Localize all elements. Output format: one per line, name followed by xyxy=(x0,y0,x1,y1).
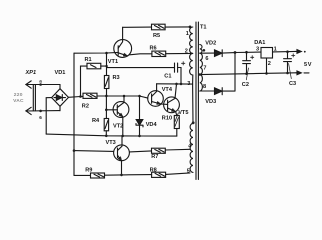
node VT5 collector on pin3 wire xyxy=(175,83,178,86)
svg-text:3: 3 xyxy=(256,47,259,53)
node pin7 xyxy=(199,73,202,76)
wire top rail VT1 collector to R5 xyxy=(123,26,152,28)
node VT2 collector junction xyxy=(123,95,126,98)
svg-text:R1: R1 xyxy=(85,57,92,63)
resistor R8 xyxy=(152,172,166,177)
wire bridge left vertex step to lower rail xyxy=(46,98,51,135)
svg-text:C3: C3 xyxy=(289,81,296,87)
wire plug pin a to bridge top xyxy=(26,84,60,86)
C3 label with leader xyxy=(289,64,297,88)
bottom rail (rail2) from left vertical xyxy=(74,173,190,176)
bridge rectifier VD1 xyxy=(52,89,69,107)
220 VAC mains label xyxy=(13,92,24,104)
svg-text:VAC: VAC xyxy=(13,98,24,104)
output positive rail xyxy=(235,51,296,52)
node DA1 pin2 bottom xyxy=(265,72,268,75)
output minus trailing dash xyxy=(304,72,309,74)
svg-text:6: 6 xyxy=(205,56,208,62)
C3 plus sign xyxy=(292,54,295,57)
node R4 bottom on rail1 xyxy=(105,135,108,138)
svg-text:VT2: VT2 xyxy=(113,123,123,129)
resistor R1 xyxy=(87,63,101,69)
svg-text:R3: R3 xyxy=(113,75,120,81)
node C3 bottom xyxy=(286,72,289,75)
node transformer pin 1 xyxy=(189,26,192,29)
svg-text:5V: 5V xyxy=(304,62,312,68)
wire VT1 base rail top-left corner xyxy=(73,53,75,175)
svg-text:7: 7 xyxy=(203,66,206,72)
C2 plus sign xyxy=(251,56,254,59)
node VD4 bottom on rail1 xyxy=(138,135,141,138)
node VT3 base tap on vertical xyxy=(73,149,76,152)
wire VT3 base from left vertical xyxy=(74,150,114,153)
transistor VT3 xyxy=(114,136,152,175)
svg-text:R4: R4 xyxy=(92,118,100,124)
resistor R9 xyxy=(91,173,105,178)
transistor VT2 xyxy=(113,96,129,136)
svg-text:VD3: VD3 xyxy=(205,99,216,105)
node C2 bottom xyxy=(245,73,248,76)
transformer core xyxy=(196,22,198,180)
transistor VT5 xyxy=(164,84,180,116)
wire R1 left to vertical xyxy=(81,66,88,96)
svg-text:220: 220 xyxy=(14,92,23,98)
svg-text:R5: R5 xyxy=(153,33,160,39)
C2 label with leader xyxy=(242,68,249,88)
node R1 branch on positive rail xyxy=(79,95,82,98)
node R3/R4 junction xyxy=(105,95,108,98)
capacitor C2 xyxy=(243,52,251,74)
svg-text:VD1: VD1 xyxy=(55,70,66,76)
capacitor C1 xyxy=(175,63,182,84)
transformer T1 primary winding 1-2-3 xyxy=(190,27,193,123)
svg-text:R2: R2 xyxy=(82,103,89,109)
svg-text:R7: R7 xyxy=(151,154,158,160)
resistor R2 xyxy=(83,93,97,98)
capacitor C1 wire left xyxy=(107,67,175,69)
svg-text:VD2: VD2 xyxy=(205,41,216,47)
node VT1 base / R3 top xyxy=(105,52,108,55)
resistor R7 xyxy=(152,148,166,153)
svg-text:VT1: VT1 xyxy=(108,59,118,65)
svg-text:2: 2 xyxy=(268,61,271,67)
svg-text:R10: R10 xyxy=(162,115,172,121)
svg-text:VT3: VT3 xyxy=(106,140,116,146)
C1 plus sign xyxy=(182,62,185,65)
svg-text:2: 2 xyxy=(185,49,188,55)
resistor R6 xyxy=(152,51,166,56)
node VT3 emitter on rail2 xyxy=(120,174,123,177)
svg-text:5: 5 xyxy=(187,168,190,174)
wire plug pin b to bridge bottom xyxy=(26,110,60,112)
svg-text:6: 6 xyxy=(39,115,42,120)
svg-text:8: 8 xyxy=(203,84,206,90)
transistor VT4 xyxy=(148,84,168,106)
svg-text:R9: R9 xyxy=(85,167,92,173)
svg-text:C1: C1 xyxy=(164,74,171,80)
emitter common rail (rail1) xyxy=(46,134,177,136)
transistor VT1 xyxy=(114,27,152,57)
node C2 top xyxy=(245,51,248,54)
resistor R3 xyxy=(104,53,109,96)
transformer secondary winding 6-7-8 xyxy=(200,45,203,91)
output terminal arrow plus xyxy=(296,50,301,54)
wire R6 to transformer pin2 xyxy=(166,52,193,54)
output plus trailing dot xyxy=(304,51,306,53)
svg-text:VT5: VT5 xyxy=(178,110,188,116)
svg-text:a: a xyxy=(39,78,42,83)
resistor R4 xyxy=(104,96,108,136)
svg-text:R6: R6 xyxy=(150,45,157,51)
svg-text:VT4: VT4 xyxy=(162,87,173,93)
transformer T1 primary winding 3-4-5 xyxy=(190,123,193,172)
capacitor C3 xyxy=(284,52,292,73)
node VT2 emitter / VT3 collector on rail1 xyxy=(121,135,124,138)
node winding 3-4 top xyxy=(192,121,195,124)
svg-text:1: 1 xyxy=(186,31,189,37)
wire R5 to transformer pin1 xyxy=(165,26,190,28)
wire VT1 base horizontal xyxy=(74,51,118,54)
svg-text:3: 3 xyxy=(187,81,190,87)
svg-text:1: 1 xyxy=(274,47,277,53)
wire bridge top stub xyxy=(59,85,61,89)
wire bridge bottom stub xyxy=(59,106,61,110)
plug XP1 pin b arrow xyxy=(26,107,31,114)
node on pin b wire xyxy=(39,110,42,113)
node C3 top xyxy=(286,50,289,53)
node VD4 junction xyxy=(138,95,141,98)
secondary polarity dot xyxy=(203,49,206,52)
regulator DA1 xyxy=(261,48,273,74)
plug XP1 pin a arrow xyxy=(26,81,31,88)
svg-text:R8: R8 xyxy=(150,167,157,173)
node VD2/VD3 cathode junction xyxy=(234,51,237,54)
svg-text:VD4: VD4 xyxy=(146,122,158,128)
wire VT2 base from R4 vertical xyxy=(106,109,117,111)
node on pin a wire xyxy=(39,83,42,86)
svg-text:XP1: XP1 xyxy=(25,70,37,76)
diode VD2 xyxy=(200,50,235,57)
svg-text:T1: T1 xyxy=(200,25,207,31)
node C1 on pin3 wire xyxy=(180,83,183,86)
svg-text:C2: C2 xyxy=(242,82,249,88)
output terminal arrow minus xyxy=(296,71,301,75)
wire positive rail from bridge right vertex xyxy=(69,96,148,98)
resistor R5 xyxy=(152,24,166,30)
zener diode VD4 xyxy=(136,96,143,136)
plug XP1 body double lines xyxy=(33,85,35,111)
diode VD3 xyxy=(200,53,235,95)
svg-text:DA1: DA1 xyxy=(254,40,265,46)
wire R7 to transformer tap4 xyxy=(165,148,190,151)
ground rail from transformer pin7 xyxy=(200,73,296,75)
wire R1 right to R3 vertical xyxy=(101,65,107,67)
wire VT4 collector rail to transformer pin3 xyxy=(157,83,193,85)
node R1 right xyxy=(105,65,107,67)
node VT2 base tap xyxy=(105,109,108,112)
resistor R10 xyxy=(174,113,179,136)
